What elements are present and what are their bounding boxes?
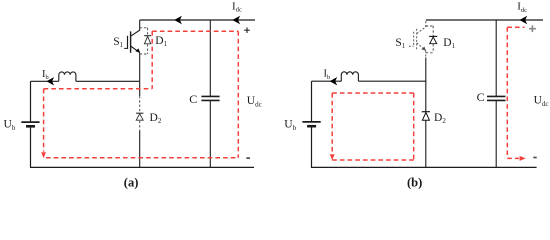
svg-text:(a): (a) xyxy=(124,176,139,190)
S1 emitter arrowhead (b) xyxy=(421,47,426,51)
red loop bottom (b) xyxy=(332,159,414,161)
red wire left (a) xyxy=(43,89,45,152)
diode D1 branch (b) xyxy=(426,26,433,53)
diode D1 dashed branch (a) xyxy=(140,28,148,54)
red loop right (b) xyxy=(413,93,415,160)
D1 lower dashed wire (b) xyxy=(432,44,434,53)
red battery loop (b) xyxy=(332,93,414,160)
S1 emitter vertical dashed (b) xyxy=(425,51,427,58)
battery Ub (b) xyxy=(302,121,320,123)
arrow Idc left (b) xyxy=(520,16,528,25)
S1 emitter vertical xyxy=(139,53,141,82)
red arrow down (b) xyxy=(330,154,335,160)
S1 collector vertical xyxy=(139,20,141,30)
red path vertical (b) xyxy=(506,27,508,158)
C bottom plate xyxy=(201,99,219,101)
wire left vertical (b) xyxy=(311,81,313,121)
wire left vertical (a) xyxy=(30,81,32,121)
plus terminal grey (b) xyxy=(529,25,536,32)
D2 upper dashed wire xyxy=(139,96,141,113)
minus terminal (a) xyxy=(246,157,250,159)
D2 upper solid wire (b) xyxy=(425,58,427,112)
red wire segment under inductor (a) xyxy=(44,88,153,90)
D2 cathode bar xyxy=(136,112,143,114)
S1 collector diagonal (b) xyxy=(417,27,426,34)
red dc-source path (b) xyxy=(507,27,524,158)
S1 collector vertical (b) xyxy=(425,21,427,27)
diode D2 branch solid (b) xyxy=(422,58,430,168)
S1 gate foot xyxy=(124,47,127,49)
D1 upper dashed wire (b) xyxy=(432,26,434,36)
C top plate xyxy=(201,95,219,97)
red loop top (b) xyxy=(332,92,414,94)
C top plate (b) xyxy=(487,95,506,97)
wire top bus (b) xyxy=(426,19,543,21)
minus terminal (b) xyxy=(533,157,536,159)
S1 emitter arrowhead xyxy=(136,48,141,52)
svg-text:C: C xyxy=(477,90,485,104)
D1 cathode bar (a) xyxy=(144,35,151,37)
inductor Lb (a) xyxy=(59,72,76,81)
red wire top (a) xyxy=(152,30,238,32)
red wire bottom (a) xyxy=(46,157,238,159)
D2 triangle xyxy=(136,114,143,121)
red arrow down (a) xyxy=(41,152,46,158)
arrow Ib left (a) xyxy=(47,77,55,85)
battery Ub (a) xyxy=(21,121,39,123)
C lower wire xyxy=(209,101,211,168)
D1 cathode bar (b) xyxy=(429,35,437,37)
red loop left (b) xyxy=(331,93,333,153)
arrow Ib left (b) xyxy=(330,77,338,85)
red wire right (a) xyxy=(237,31,239,158)
S1 emitter diagonal (b) xyxy=(417,43,426,51)
inductor Lb (b) xyxy=(341,72,358,81)
C upper wire xyxy=(209,20,211,96)
red path top link (b) xyxy=(507,26,524,28)
D2 upper solid wire xyxy=(139,81,141,96)
wire top bus (a) xyxy=(140,19,255,21)
D2 cathode bar (b) xyxy=(422,111,430,113)
red arrow right (b) xyxy=(520,156,526,161)
wire mid horizontal (b) xyxy=(312,80,342,82)
S1 collector diagonal xyxy=(131,30,140,36)
svg-text:(b): (b) xyxy=(407,176,422,190)
plus terminal (a) xyxy=(244,27,250,33)
S1 body bar xyxy=(130,31,132,52)
transistor S1 IGBT dashed (b) xyxy=(409,21,426,57)
arrow Idc left #1 (a) xyxy=(174,16,182,25)
D1 bottom link (b) xyxy=(426,52,433,54)
wire bottom bus (b) xyxy=(311,166,537,168)
S1 gate bar xyxy=(127,36,129,49)
S1 body bar (b) xyxy=(416,29,418,49)
red current loop (a) xyxy=(44,31,239,158)
D1 upper dashed wire xyxy=(147,28,149,36)
D1 top link (b) xyxy=(426,25,433,27)
D1 top link xyxy=(140,27,148,29)
D2 lower solid wire xyxy=(139,131,141,167)
D2 lower dashed wire xyxy=(139,121,141,131)
C upper wire (b) xyxy=(495,20,497,96)
transistor S1 IGBT (a) xyxy=(124,20,140,81)
C lower wire (b) xyxy=(495,101,497,168)
D1 triangle (a) xyxy=(144,36,150,43)
C bottom plate (b) xyxy=(487,99,506,101)
wire mid horizontal (a) xyxy=(31,80,59,82)
S1 emitter diagonal xyxy=(131,46,140,53)
S1 gate foot (b) xyxy=(409,45,414,47)
svg-text:C: C xyxy=(189,92,197,106)
capacitor C branch (b) xyxy=(487,20,506,167)
red path bottom link (b) xyxy=(507,157,519,159)
capacitor C branch (a) xyxy=(201,20,219,167)
arrow Idc left #2 (a) xyxy=(232,16,240,25)
diode D2 branch (a) xyxy=(136,81,143,167)
wire bottom bus (a) xyxy=(30,166,254,168)
D2 triangle (b) xyxy=(422,113,429,121)
D2 lower solid wire (b) xyxy=(425,120,427,167)
D1 triangle (b) xyxy=(430,37,437,44)
D1 bottom link xyxy=(140,53,148,55)
S1 gate bar (b) xyxy=(413,32,415,47)
red wire up S1 branch (a) xyxy=(151,31,153,89)
D1 lower dashed wire xyxy=(147,44,149,54)
